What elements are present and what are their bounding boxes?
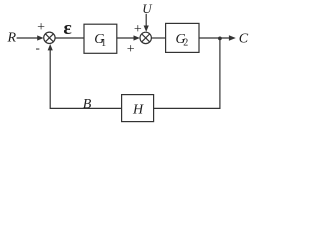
svg-text:R: R <box>7 30 17 45</box>
svg-text:+: + <box>134 22 142 37</box>
svg-text:H: H <box>132 103 144 118</box>
svg-text:U: U <box>142 1 153 16</box>
svg-text:B: B <box>83 97 92 112</box>
svg-text:-: - <box>36 40 40 55</box>
svg-text:C: C <box>239 32 249 47</box>
svg-text:1: 1 <box>101 38 106 49</box>
svg-text:2: 2 <box>183 37 188 48</box>
svg-text:+: + <box>37 20 45 35</box>
svg-text:ε: ε <box>63 18 71 39</box>
svg-text:+: + <box>127 42 135 57</box>
